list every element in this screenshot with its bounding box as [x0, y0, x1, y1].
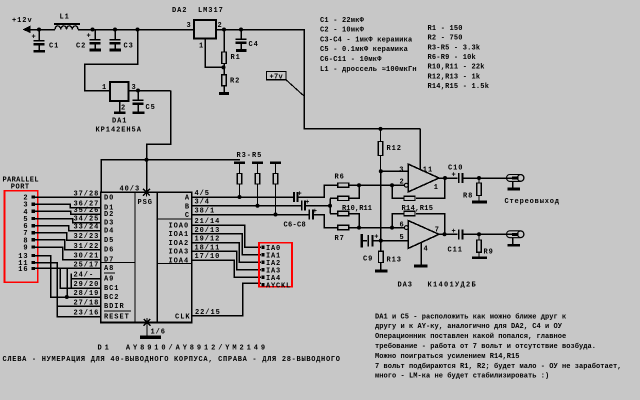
svg-text:D4: D4 [104, 228, 114, 236]
svg-text:A9: A9 [104, 276, 114, 284]
capacitor C4 [236, 30, 259, 50]
svg-text:К1401УД2Б: К1401УД2Б [428, 282, 478, 290]
wire port pin 16 to A8 [34, 267, 101, 269]
svg-text:7: 7 [435, 226, 440, 234]
pin number 3/4 of PSG [195, 199, 210, 207]
svg-text:16: 16 [18, 266, 28, 274]
svg-text:R14,R15 - 1.5k: R14,R15 - 1.5k [428, 83, 490, 91]
wire DA1 pin 2 to ground [119, 101, 121, 112]
wire channel C from PSG to C8 [192, 213, 309, 217]
wire IOA3 to IA3 [192, 251, 261, 269]
svg-text:+12v: +12v [12, 17, 33, 25]
pin 8 of parallel port [23, 237, 35, 245]
svg-text:Операционник поставлен какой п: Операционник поставлен какой попался, гл… [375, 332, 566, 341]
svg-text:D1 AY8910/AY8912/YM2149: D1 AY8910/AY8912/YM2149 [98, 344, 268, 352]
svg-text:B: B [185, 203, 190, 211]
wire IOA4 to IA4 [192, 260, 261, 277]
wire R6 to op-amp pin 2 [349, 183, 405, 187]
ground under R8 [472, 201, 487, 204]
node assembly notes text [375, 312, 622, 380]
resistor R10 [338, 196, 349, 200]
wire IOA1 to IA1 [192, 234, 261, 255]
svg-text:D0: D0 [104, 194, 114, 202]
wire IOA0 to IA0 [192, 225, 261, 247]
inductor L1 [54, 14, 80, 30]
svg-text:3: 3 [187, 22, 192, 30]
ground under C1 [33, 50, 45, 53]
svg-text:C: C [185, 212, 190, 220]
pin label A of PSG [185, 195, 190, 203]
node capacitor values list [320, 17, 417, 74]
pin label D5 of PSG [104, 237, 114, 245]
pin number 31/22 of PSG [74, 243, 100, 251]
wire bias rail down to pin 5 [380, 171, 382, 240]
svg-text:IOA1: IOA1 [169, 231, 190, 239]
pin number 38/1 of PSG [195, 208, 216, 216]
svg-text:другу и к AY-ку, аналогично дл: другу и к AY-ку, аналогично для DA2, C4 … [375, 323, 563, 331]
svg-text:+: + [452, 172, 457, 180]
ground under C3 [109, 49, 121, 52]
node bias at pin 5 [379, 239, 383, 243]
svg-text:КР142ЕН5А: КР142ЕН5А [96, 127, 142, 135]
svg-text:RESET: RESET [104, 313, 130, 321]
wire port pin 8 to D6 [34, 240, 101, 250]
svg-text:C5 - 0.1мкФ керамика: C5 - 0.1мкФ керамика [320, 46, 409, 54]
node signal IA4 [262, 275, 282, 283]
svg-text:C11: C11 [448, 246, 463, 254]
node output jack 1 [507, 175, 525, 188]
pin number 4/5 of PSG [195, 190, 210, 198]
ground under C4 [236, 49, 247, 52]
node parallel port connector box (red) [5, 191, 38, 282]
pin 3 label of DA1 [132, 84, 137, 92]
resistor R1 [222, 30, 241, 68]
ground under R2 [219, 92, 229, 95]
svg-text:L1: L1 [60, 14, 70, 22]
wire +12v rail (arrow to L1, with C1 tap) [29, 28, 55, 32]
wire feedback via R14 [392, 178, 445, 198]
wire pin 3 from bias node [381, 170, 408, 172]
node D1 chip designation label [98, 344, 268, 352]
wire L1 to DA2 input (taps C2, C3, DA1 branch) [78, 28, 194, 32]
svg-text:R13: R13 [387, 257, 402, 265]
pin 6 label of op-amp [400, 221, 405, 229]
svg-text:BC2: BC2 [104, 294, 119, 302]
wire A9 stub from bracket [71, 278, 101, 280]
pin number 22/15 of PSG [195, 309, 221, 317]
pin number 17/10 of PSG [195, 253, 221, 261]
svg-text:C1 - 22мкФ: C1 - 22мкФ [320, 17, 365, 25]
pin 6 of parallel port [23, 223, 35, 231]
capacitor C8 [284, 208, 318, 230]
wire port pin 11 to BDIR and RESET [34, 263, 101, 317]
wire DA1 output (+5v) with C5 tap [129, 89, 171, 93]
wire port pin 3 to D1 [34, 204, 101, 207]
wire port pin 4 to D2 [34, 211, 101, 214]
pin 1 label of op-amp [434, 184, 439, 192]
capacitor C6 [293, 191, 302, 203]
resistor R6 [335, 174, 349, 188]
svg-text:1/6: 1/6 [151, 329, 166, 337]
svg-text:DA1 и C5 - расположить как мож: DA1 и C5 - расположить как можно ближе д… [375, 312, 566, 321]
svg-text:СЛЕВА - НУМЕРАЦИЯ ДЛЯ 40-ВЫВОД: СЛЕВА - НУМЕРАЦИЯ ДЛЯ 40-ВЫВОДНОГО КОРПУ… [3, 356, 341, 364]
wire port pin 5 to D3 [34, 219, 101, 223]
svg-text:R2: R2 [230, 78, 240, 86]
wire R10 to pin 2 node [349, 185, 359, 198]
svg-text:LM317: LM317 [198, 7, 224, 15]
wire op-amp pin 4 to ground [420, 243, 422, 265]
svg-text:D5: D5 [104, 237, 114, 245]
regulator DA2 LM317 body [172, 7, 224, 39]
svg-text:IOA0: IOA0 [169, 222, 190, 230]
svg-text:R1 - 150: R1 - 150 [428, 25, 463, 33]
node junction on BC2 wire [65, 295, 69, 299]
pin number 27/18 of PSG [74, 299, 100, 307]
capacitor C1 [32, 30, 60, 51]
wire C10 to jack 1 [463, 176, 511, 180]
wire +5v branch to R3-R5 [147, 159, 241, 161]
pin label BC1 of PSG [104, 285, 119, 293]
capacitor C2 [76, 30, 101, 51]
pin label D7 of PSG [104, 256, 114, 264]
node DA3 chip label [398, 282, 478, 290]
capacitor C10 [448, 164, 463, 183]
pin label D0 of PSG [104, 194, 114, 202]
wire port pin 13 to BC2 [34, 256, 101, 298]
svg-text:много - LM-ка не будет стабили: много - LM-ка не будет стабилизировать :… [375, 372, 549, 381]
node signal IA3 [262, 267, 282, 275]
capacitor C11 [448, 228, 464, 254]
pin number 28/19 of PSG [74, 290, 100, 298]
pin label A8 of PSG [104, 265, 114, 273]
wire port pin 6 to D4 [34, 226, 101, 231]
node interface signals box (red) [259, 243, 292, 287]
pin number 33/24 of PSG [74, 224, 100, 232]
pin label D3 of PSG [104, 220, 114, 228]
ground under PSG [140, 336, 161, 339]
node R1-R2 junction [222, 65, 226, 69]
svg-text:C6-C11 - 10мкФ: C6-C11 - 10мкФ [320, 56, 382, 64]
pin number 30/21 of PSG [74, 253, 100, 261]
ground under jack 2 [507, 244, 520, 247]
wire A8 branch to BC1 (29/20) [60, 268, 101, 288]
wire channel B from PSG to C7 [192, 204, 301, 208]
svg-text:9: 9 [23, 245, 28, 253]
wire DA2 pin 1 to R1/R2 junction [205, 39, 222, 68]
node output jack 2 [507, 231, 525, 244]
pin 13 of parallel port [18, 253, 35, 261]
pin number 32/23 of PSG [74, 233, 100, 241]
pin label A9 of PSG [104, 273, 115, 284]
wire port pin 7 to D5 [34, 233, 101, 241]
svg-text:+: + [32, 34, 37, 42]
wire main rail to DA1 input [85, 30, 138, 91]
pin number 19/12 of PSG [195, 236, 221, 244]
ground under R13 [375, 270, 388, 273]
svg-text:40/3: 40/3 [120, 185, 141, 193]
regulator DA1 KP142EH5A body [96, 82, 142, 135]
pin number 29/20 of PSG [74, 281, 100, 289]
svg-text:R7: R7 [335, 235, 345, 243]
resistor R13 [379, 241, 402, 270]
svg-text:A8: A8 [104, 265, 114, 273]
pin number 20/13 of PSG [195, 227, 221, 235]
pin 3 label of op-amp [399, 167, 404, 175]
svg-text:CLK: CLK [175, 314, 190, 322]
svg-text:IOA4: IOA4 [169, 257, 190, 265]
pin number 36/27 of PSG [74, 201, 100, 209]
wire C6 to R6 [299, 185, 338, 197]
node Стереовыход label [505, 198, 560, 206]
svg-text:+: + [452, 228, 457, 236]
wire +7v to op-amp pin 11 [419, 129, 421, 170]
pin label D2 of PSG [104, 211, 114, 219]
pin label IOA0 of PSG [169, 222, 190, 230]
pin number 18/11 of PSG [195, 244, 221, 252]
pin 5 of parallel port [23, 216, 35, 224]
svg-text:D3: D3 [104, 220, 114, 228]
svg-text:3: 3 [399, 167, 404, 175]
wire C8 to R7 [314, 215, 338, 228]
svg-text:C3-C4 - 1мкФ керамика: C3-C4 - 1мкФ керамика [320, 36, 413, 44]
wire +5v branch to PSG box corner [101, 160, 147, 193]
pin 4 of parallel port [23, 209, 35, 217]
node pin 6 inverting bubble [404, 226, 408, 230]
svg-text:C3: C3 [124, 43, 134, 51]
svg-text:1: 1 [199, 43, 204, 51]
pin number 35/26 of PSG [74, 207, 100, 215]
svg-text:R3-R5 - 3.3k: R3-R5 - 3.3k [428, 44, 481, 52]
pin label D6 of PSG [104, 247, 114, 255]
wire IOA2 to IA2 [192, 243, 261, 263]
resistor R3 with power bar [234, 152, 262, 197]
node +12v input terminal (arrow) [12, 17, 33, 33]
svg-text:4: 4 [424, 245, 429, 253]
capacitor C3 [110, 30, 134, 51]
svg-text:Стереовыход: Стереовыход [505, 198, 560, 206]
pin 4 label of op-amp [424, 245, 429, 253]
resistor R7 [335, 225, 349, 243]
svg-text:R12,R13 - 1k: R12,R13 - 1k [428, 73, 481, 81]
wire A8 branch down to BC2 node [66, 268, 68, 297]
pin 11 of parallel port [18, 260, 35, 268]
op-amp U1b (DA3.2) triangle [408, 221, 439, 249]
svg-text:R10,R11: R10,R11 [342, 205, 372, 213]
svg-text:C5: C5 [146, 104, 156, 112]
node signal IA1 [262, 252, 282, 260]
pin 3 of parallel port [23, 202, 35, 210]
pin number 21/14 of PSG [195, 218, 221, 226]
capacitor C7 [301, 199, 310, 211]
svg-text:D6: D6 [104, 247, 114, 255]
pin 2 label of DA2 [218, 22, 223, 30]
pin label RESET of PSG [104, 311, 131, 322]
ground under jack 1 [507, 188, 520, 191]
pin 5 label of op-amp [400, 234, 405, 242]
pin number 34/25 of PSG [74, 216, 100, 224]
op-amp U1a (DA3.1) triangle [408, 164, 439, 192]
resistor R2 [222, 67, 241, 92]
svg-text:A: A [185, 195, 190, 203]
node +7v label box [267, 72, 305, 96]
svg-text:C9: C9 [363, 256, 373, 264]
pin 1 label of DA2 [199, 43, 204, 51]
wire +7v rail down and right to op-amps [304, 30, 420, 131]
node A9-BC1 tie bracket [70, 274, 72, 289]
wire channel A from PSG to C6 [192, 195, 294, 199]
pin label BC2 of PSG [104, 294, 119, 302]
pin number 23/16 of PSG [74, 310, 100, 318]
pin label IOA2 of PSG [169, 240, 190, 248]
node signal AYCKL [262, 282, 292, 290]
node PSG power pin X marker [120, 185, 150, 196]
svg-text:2: 2 [121, 105, 126, 113]
pin 7 label of op-amp [435, 226, 440, 234]
svg-text:R6-R9 - 10k: R6-R9 - 10k [428, 54, 476, 62]
svg-text:+7v: +7v [270, 73, 284, 81]
resistor R11 [338, 205, 372, 216]
pin 2 of parallel port [23, 195, 35, 203]
pin label IOA4 of PSG [169, 257, 190, 265]
svg-text:1: 1 [102, 84, 107, 92]
svg-text:BDIR: BDIR [104, 303, 125, 311]
wire R7 to op-amp pin 6 [349, 226, 405, 230]
pin 3 label of DA2 [187, 22, 192, 30]
pin label BDIR of PSG [104, 303, 125, 311]
node signal IA0 [262, 245, 282, 253]
pin label D4 of PSG [104, 228, 114, 236]
svg-text:7 вольт подбираются R1, R2; бу: 7 вольт подбираются R1, R2; будет мало -… [375, 362, 622, 371]
pin label CLK of PSG [175, 314, 190, 322]
svg-text:BC1: BC1 [104, 285, 119, 293]
resistor R12 [378, 129, 402, 171]
resistor R14 [402, 196, 434, 213]
node pin 2 inverting bubble [404, 183, 408, 187]
svg-text:11: 11 [423, 166, 433, 174]
resistor R4 with power bar [252, 161, 263, 205]
svg-text:Можно поиграться усилением R14: Можно поиграться усилением R14,R15 [375, 353, 520, 361]
ground under R9 [472, 256, 487, 259]
pin number 24/- of PSG [74, 272, 95, 280]
wire R11 to pin 6 node [349, 214, 359, 228]
svg-text:DA1: DA1 [112, 118, 127, 126]
svg-text:IOA3: IOA3 [169, 249, 190, 257]
svg-text:D7: D7 [104, 256, 114, 264]
svg-text:R3-R5: R3-R5 [237, 152, 263, 160]
pin 9 of parallel port [23, 245, 35, 253]
pin 2 label of op-amp [400, 178, 405, 186]
pin label IOA1 of PSG [169, 231, 190, 239]
svg-text:D2: D2 [104, 211, 114, 219]
svg-text:DA2: DA2 [172, 7, 187, 15]
resistor R15 [404, 211, 415, 215]
pin 1 label of DA1 [102, 84, 107, 92]
svg-text:1: 1 [434, 184, 439, 192]
svg-text:R9: R9 [484, 248, 494, 256]
capacitor C9 [360, 233, 380, 263]
pin 2 label of DA1 [121, 105, 126, 113]
resistor R5 with power bar [270, 161, 281, 214]
resistor R9 [477, 234, 494, 256]
pin label C of PSG [185, 212, 190, 220]
op-amp U-PSG chip D1 body [101, 192, 192, 322]
wire CLK to AYCKL [192, 283, 261, 315]
node resistor values list [428, 25, 490, 91]
pin label IOA3 of PSG [169, 249, 190, 257]
svg-text:R1: R1 [231, 54, 241, 62]
pin 7 of parallel port [23, 230, 35, 238]
wire port pin 9 to D7 [34, 247, 101, 260]
svg-text:PSG: PSG [138, 199, 153, 207]
wire port pin 2 to D0 [34, 196, 101, 199]
ground under DA1 pin 2 [114, 111, 126, 114]
svg-text:DA3: DA3 [398, 282, 413, 290]
node R12 to pin3 junction [379, 169, 383, 173]
svg-text:R12: R12 [387, 145, 402, 153]
svg-text:C4: C4 [249, 41, 259, 49]
svg-text:L1 - дроссель ≈100мкГн: L1 - дроссель ≈100мкГн [320, 66, 417, 74]
ground under C5 [132, 111, 144, 114]
ground under op-amp pin 4 [414, 265, 428, 268]
pin 16 of parallel port [18, 266, 35, 274]
wire DA2 output rail to +7v corner [216, 28, 305, 32]
svg-text:R6: R6 [335, 174, 345, 182]
pin number 25/17 of PSG [74, 261, 100, 269]
pin number 37/28 of PSG [74, 191, 100, 199]
pin label B of PSG [185, 203, 190, 211]
pin 11 label of op-amp [423, 166, 433, 174]
svg-text:IOA2: IOA2 [169, 240, 190, 248]
wire +5v to PSG power pin [145, 91, 171, 193]
capacitor C5 [133, 91, 156, 113]
svg-text:+: + [374, 233, 379, 241]
wire C11 to jack 2 [463, 232, 511, 236]
resistor R8 [463, 178, 481, 201]
node footnote numbering note [3, 356, 341, 364]
wire C7 to R10/R11 split [306, 198, 338, 213]
pin label D1 of PSG [104, 204, 114, 212]
wire pin 5 from bias node [381, 240, 408, 242]
wire op-amp 1 output [439, 176, 458, 180]
node PSG ground pin X marker [144, 318, 166, 336]
node PARALLEL PORT connector label [3, 177, 39, 192]
svg-text:C2: C2 [76, 43, 86, 51]
svg-text:AYCKL: AYCKL [266, 282, 291, 290]
svg-text:C6-C8: C6-C8 [284, 222, 307, 230]
ground under C2 [89, 49, 101, 52]
svg-text:R10,R11 - 22k: R10,R11 - 22k [428, 64, 485, 72]
node signal IA2 [262, 260, 282, 268]
svg-text:C1: C1 [49, 43, 59, 51]
wire op-amp 2 output [439, 232, 458, 236]
wire feedback via R15 [392, 214, 445, 235]
svg-text:C2 - 10мкФ: C2 - 10мкФ [320, 27, 365, 35]
svg-text:требование - работа от 7 вольт: требование - работа от 7 вольт и отсутст… [375, 342, 596, 351]
svg-text:R2 - 750: R2 - 750 [428, 35, 463, 43]
svg-text:R8: R8 [463, 193, 473, 201]
